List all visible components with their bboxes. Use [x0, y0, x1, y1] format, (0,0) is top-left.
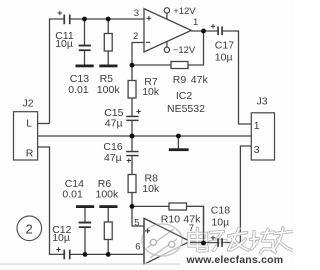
svg-text:R9: R9	[173, 74, 187, 86]
capacitor C15 47u plates	[126, 116, 138, 121]
ground bar under C13	[76, 65, 94, 68]
svg-text:+12V: +12V	[173, 6, 196, 17]
wire C14 column	[84, 208, 86, 223]
watermark logo circles	[142, 224, 182, 258]
ground bar above C14	[76, 205, 94, 208]
svg-text:10k: 10k	[142, 86, 160, 98]
svg-text:47µ: 47µ	[104, 152, 122, 164]
svg-text:47k: 47k	[191, 74, 209, 86]
svg-text:5: 5	[134, 217, 139, 228]
capacitor C12 10u plates	[63, 250, 70, 260]
wire J2 R stub and down run	[38, 147, 65, 254]
svg-text:0.01: 0.01	[62, 188, 83, 200]
plus mark C17	[211, 24, 215, 28]
junction node output pin7	[201, 241, 206, 246]
wire top after C11	[70, 18, 144, 20]
svg-text:10µ: 10µ	[215, 51, 233, 63]
svg-text:C18: C18	[211, 204, 230, 216]
connector J2	[14, 112, 38, 160]
capacitor C18 10u plates	[217, 238, 223, 247]
junction node pin5	[130, 204, 135, 209]
svg-text:J3: J3	[257, 95, 268, 107]
svg-text:0.01: 0.01	[68, 84, 89, 96]
svg-text:47µ: 47µ	[105, 117, 123, 129]
ground symbol mid rail	[169, 148, 189, 151]
junction node C13/top	[82, 17, 87, 22]
svg-text:1: 1	[254, 120, 260, 132]
svg-text:10k: 10k	[142, 183, 160, 195]
wire R7 to C15	[131, 98, 133, 116]
svg-text:7: 7	[189, 223, 194, 234]
watermark faint bottom streak	[0, 263, 180, 265]
svg-text:R10: R10	[161, 213, 180, 225]
svg-text:10µ: 10µ	[211, 216, 229, 228]
wire C13 column	[84, 19, 86, 45]
wire R8 to node	[131, 193, 133, 207]
wire R10 left	[132, 205, 169, 207]
resistor R6 100k	[104, 222, 112, 240]
wire node to pin5	[132, 206, 144, 226]
connector J3	[251, 113, 274, 160]
plus mark C16	[127, 158, 131, 162]
wire ground stub mid rail	[177, 136, 179, 149]
capacitor C16 47u plates	[126, 151, 138, 157]
svg-text:2: 2	[133, 31, 138, 42]
wire output to C17	[191, 30, 217, 32]
svg-text:C17: C17	[215, 39, 234, 51]
junction node B pin2	[130, 63, 135, 68]
junction node R5/top	[106, 17, 111, 22]
wire middle ground rail	[38, 135, 252, 137]
plus mark C11	[58, 11, 62, 15]
wire +12V stub	[166, 13, 168, 19]
power terminal -12V	[164, 47, 169, 52]
svg-text:L: L	[26, 118, 32, 130]
svg-text:100k: 100k	[96, 188, 120, 200]
circled channel number 2	[17, 216, 42, 241]
junction node output pin1	[201, 29, 206, 34]
ground bar under R5	[99, 65, 117, 68]
resistor R8 10k	[128, 175, 136, 193]
svg-text:6: 6	[135, 242, 140, 253]
wire R9 left	[132, 64, 171, 66]
svg-text:−12V: −12V	[173, 45, 196, 56]
op-amp U2A (top, IC2 NE5532)	[144, 9, 191, 52]
wire R5 column	[107, 19, 109, 34]
wire C17 to J3 pin1	[222, 31, 251, 124]
svg-text:3: 3	[254, 144, 260, 156]
svg-text:IC2: IC2	[176, 90, 193, 102]
junction node R6/bottom	[106, 252, 111, 257]
svg-text:C16: C16	[103, 141, 122, 153]
svg-text:J2: J2	[23, 97, 34, 109]
wire C18 to J3 pin3	[222, 146, 251, 243]
wire C15 to rail	[131, 121, 133, 136]
svg-text:100k: 100k	[97, 84, 121, 96]
svg-text:NE5532: NE5532	[167, 103, 205, 115]
wire C16 to R8	[131, 156, 133, 175]
wire R6 column	[107, 208, 109, 222]
wire pin2 net	[132, 43, 144, 81]
ground bar above R6	[99, 205, 117, 208]
svg-text:www.elecfans.com: www.elecfans.com	[186, 254, 284, 266]
plus mark C15	[136, 109, 140, 113]
wire -12V stub	[166, 41, 168, 47]
capacitor C14 0.01 plates	[79, 222, 92, 228]
resistor R5 100k	[104, 34, 112, 52]
wire J2 L stub	[38, 123, 50, 125]
watermark chinese characters	[189, 228, 293, 253]
wire bottom output to C18	[190, 242, 218, 244]
wire bottom after C12	[70, 253, 144, 255]
resistor R7 10k	[128, 81, 136, 99]
capacitor C17 10u plates	[217, 27, 223, 36]
resistor R9 47k	[171, 62, 188, 69]
wire R9 right up to output	[188, 31, 204, 65]
resistor R10 47k	[169, 203, 187, 210]
wire top input horizontal	[50, 19, 65, 124]
svg-text:10µ: 10µ	[52, 232, 70, 244]
svg-text:10µ: 10µ	[55, 38, 73, 50]
junction node rail C15	[130, 134, 135, 139]
op-amp U2B edges redrawn over watermark	[144, 218, 190, 241]
junction node rail ground	[176, 134, 181, 139]
op-amp U2B (bottom, IC2 NE5532)	[144, 218, 190, 264]
wire rail to C16	[131, 136, 133, 151]
power terminal +12V	[164, 8, 169, 13]
plus mark C18	[211, 236, 215, 240]
wire bottom output redrawn over watermark	[190, 242, 218, 244]
capacitor C13 0.01 plates	[79, 45, 91, 52]
wire R10 right down to output	[187, 206, 204, 243]
plus mark C12	[56, 247, 60, 251]
capacitor C11 10u plates	[63, 15, 70, 25]
junction node C14/bottom	[83, 252, 88, 257]
svg-text:3: 3	[134, 8, 139, 19]
svg-text:R: R	[26, 148, 34, 160]
svg-text:2: 2	[26, 222, 33, 237]
svg-text:1: 1	[193, 17, 198, 28]
